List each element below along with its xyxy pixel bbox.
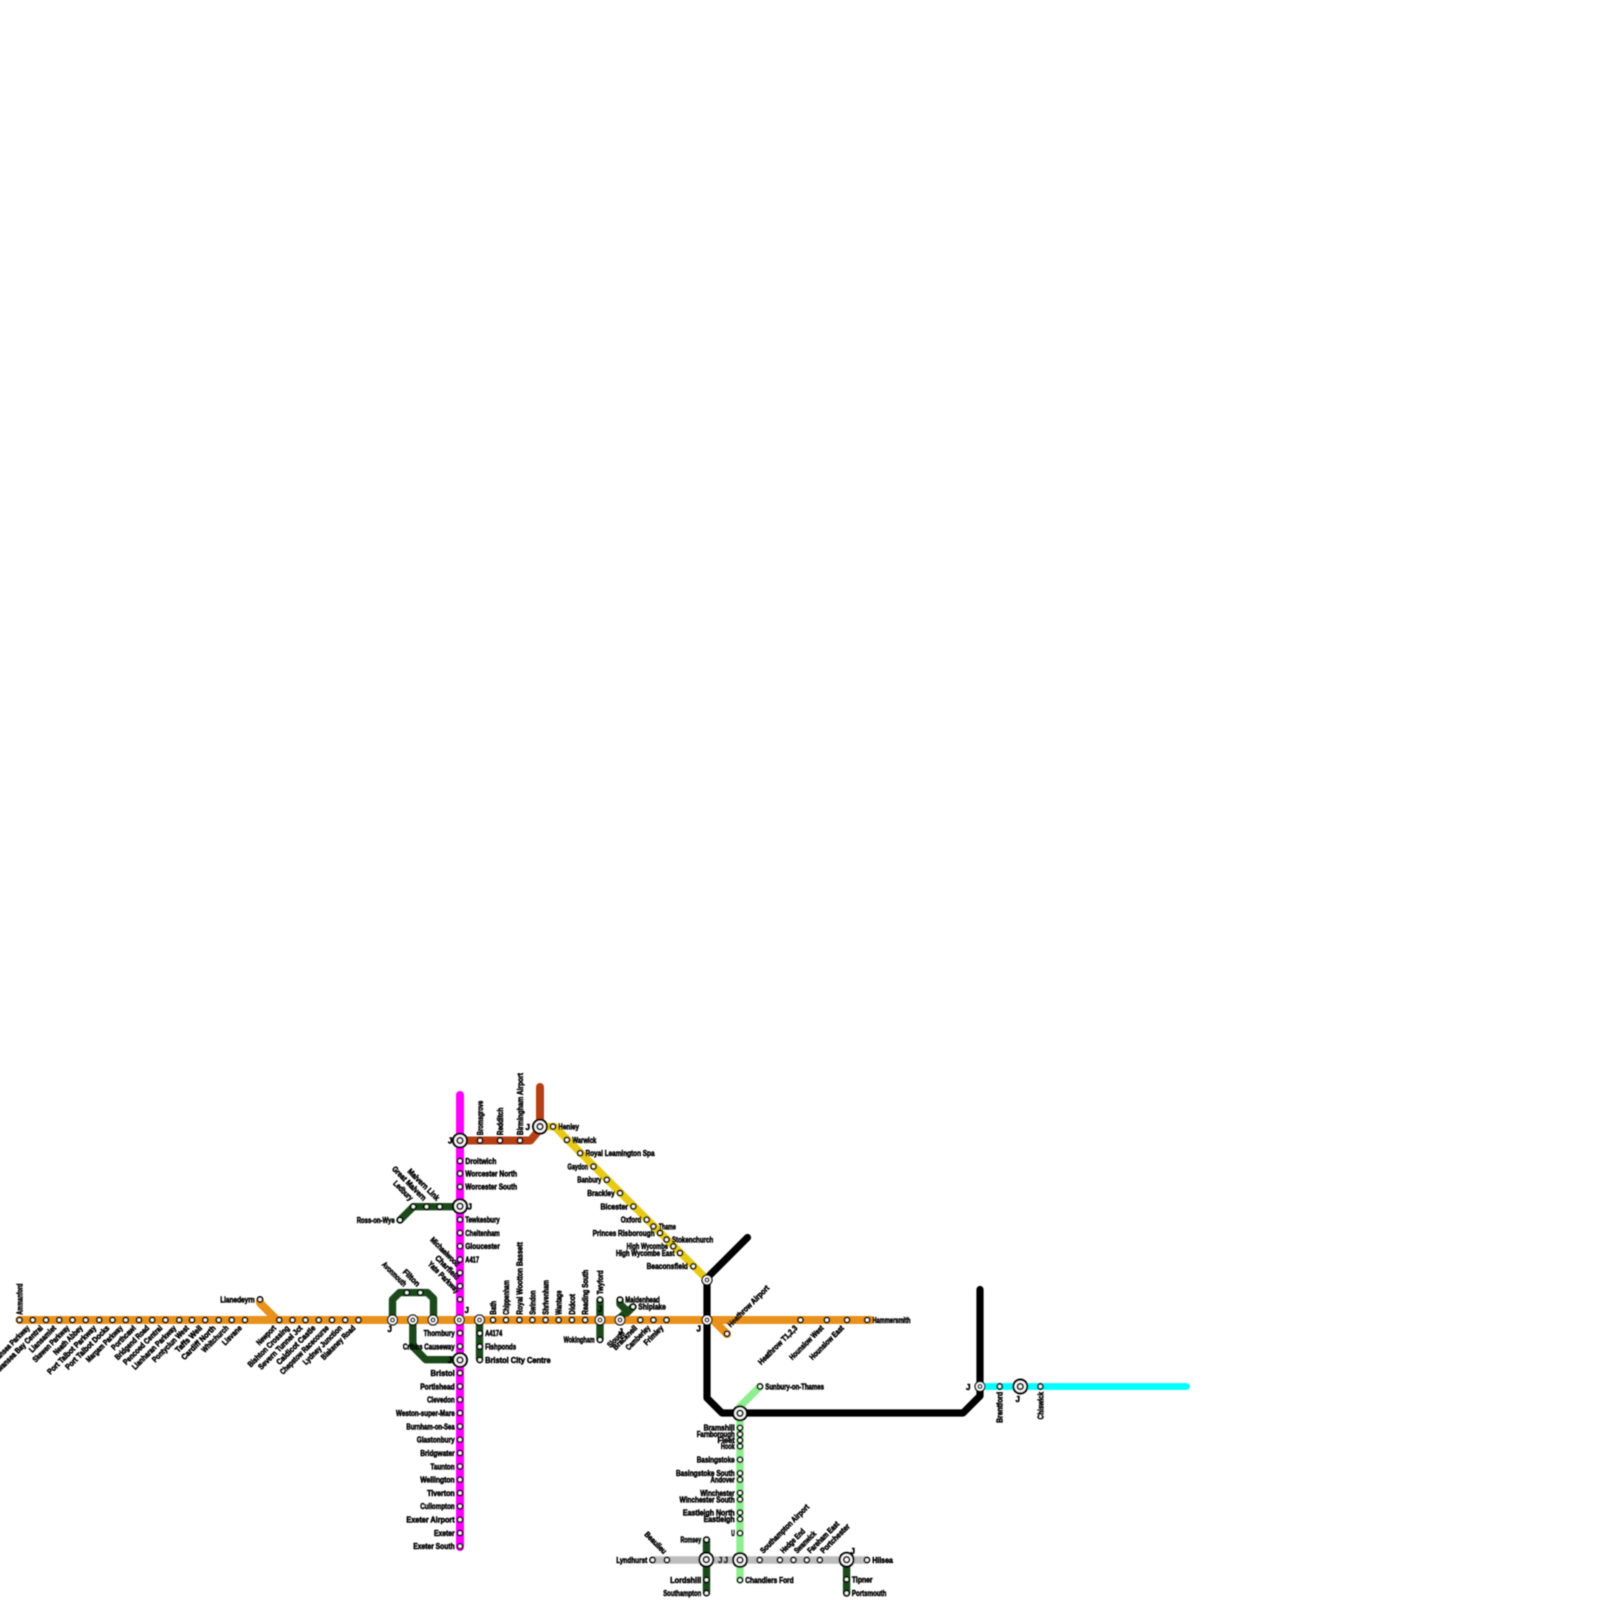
svg-text:Stokenchurch: Stokenchurch [672,1236,713,1245]
line orange main (Swansea-Hammersmith) [20,1316,872,1324]
svg-text:Henley: Henley [558,1123,579,1132]
interchange J yellow-black Beaconsfield [701,1274,712,1285]
svg-text:Ross-on-Wye: Ross-on-Wye [357,1216,395,1225]
svg-text:Brentford: Brentford [996,1392,1005,1423]
svg-text:Southampton: Southampton [663,1589,701,1598]
svg-text:Gaydon: Gaydon [568,1162,589,1171]
line orange Llanedeyrn branch [260,1301,277,1320]
svg-text:Bristol: Bristol [431,1369,455,1378]
line grey (Lyndhurst-Hilsea) [653,1556,867,1563]
svg-text:Oxford: Oxford [621,1216,642,1225]
big interchange circles [452,1119,1028,1568]
svg-text:Portsmouth: Portsmouth [852,1589,887,1598]
svg-text:Didcot: Didcot [568,1294,577,1315]
svg-text:Hook: Hook [721,1442,735,1451]
interchange Bristol junction [452,1352,468,1368]
svg-text:Ammanford: Ammanford [15,1284,24,1315]
line darkgreen Twyford-Wokingham [596,1300,603,1339]
svg-text:Hammersmith: Hammersmith [873,1316,911,1325]
interchange J magenta-green [452,1198,468,1214]
svg-text:Wokingham: Wokingham [564,1336,595,1345]
svg-text:Weston-super-Mare: Weston-super-Mare [396,1409,455,1418]
svg-text:J: J [711,1268,715,1277]
interchange J orange-greenBristolCity [474,1314,485,1325]
svg-text:J: J [448,1356,452,1365]
svg-text:J: J [465,1306,469,1315]
svg-text:Lordshill: Lordshill [670,1576,701,1585]
line brown (Birmingham) [460,1087,540,1141]
interchange J loop east [427,1314,438,1325]
svg-text:J: J [1016,1395,1020,1404]
line black (Beaconsfield loop) [707,1238,980,1414]
svg-text:Fishponds: Fishponds [485,1343,517,1352]
svg-text:Burnham-on-Sea: Burnham-on-Sea [406,1422,455,1431]
svg-text:Redditch: Redditch [496,1108,505,1136]
svg-text:Andover: Andover [711,1476,735,1485]
station name labels [0,1073,1045,1598]
interchange Portsmouth junction [839,1552,855,1568]
svg-text:Worcester South: Worcester South [465,1183,517,1192]
interchange J loop west [387,1314,398,1325]
svg-text:J: J [724,1556,728,1565]
svg-text:Cheltenham: Cheltenham [465,1229,500,1238]
line darkgreen Avonmouth loop [393,1293,434,1318]
interchange J orange-Wokingham [594,1314,605,1325]
svg-text:U: U [731,1529,735,1538]
line darkgreen Ross-on-Wye branch [400,1207,458,1220]
svg-text:Exeter: Exeter [434,1529,455,1538]
svg-text:Worcester North: Worcester North [465,1169,517,1178]
svg-text:Clevedon: Clevedon [427,1396,455,1405]
svg-text:Bath: Bath [489,1301,498,1315]
line yellow (Henley-Beaconsfield) [540,1127,707,1280]
line lightgreen Sunbury branch [740,1387,760,1409]
svg-text:Royal Wootton Bassett: Royal Wootton Bassett [515,1242,524,1315]
svg-text:Gloucester: Gloucester [465,1242,500,1251]
svg-text:Cribbs Causeway: Cribbs Causeway [403,1342,455,1351]
svg-text:J: J [468,1202,472,1211]
interchange J orange-black [701,1314,712,1325]
interchange Henley junction [532,1119,548,1135]
line darkgreen Bristol connector [413,1322,458,1360]
interchange J black-cyan [974,1381,985,1392]
svg-text:Bromsgrove: Bromsgrove [476,1100,485,1135]
svg-text:Eastleigh: Eastleigh [704,1515,735,1524]
svg-text:Swindon: Swindon [528,1290,537,1314]
svg-text:A417: A417 [465,1255,479,1264]
svg-text:Wellington: Wellington [420,1476,455,1485]
interchange cyan interchange [1012,1379,1028,1395]
svg-text:Twyford: Twyford [596,1270,605,1294]
svg-text:J: J [388,1325,392,1334]
line darkgreen Maidenhead branch [620,1300,627,1317]
svg-text:Taunton: Taunton [431,1462,455,1471]
svg-text:A4174: A4174 [485,1329,503,1338]
svg-text:Exeter Airport: Exeter Airport [406,1516,455,1525]
svg-text:Bicester: Bicester [601,1202,629,1211]
svg-text:Romsey: Romsey [681,1536,702,1545]
line darkgreen Bristol City branch [476,1322,483,1359]
svg-text:Cullompton: Cullompton [420,1502,455,1511]
svg-text:Thame: Thame [659,1222,677,1231]
svg-text:Beaconsfield: Beaconsfield [647,1262,688,1271]
line darkgreen Shiplake spur [627,1307,633,1313]
line darkgreen Romsey-Southampton [703,1540,710,1593]
svg-text:J: J [526,1123,530,1132]
svg-text:Princes Risborough: Princes Risborough [593,1229,655,1238]
interchange Slough interchange [614,1314,625,1325]
svg-text:Droitwich: Droitwich [465,1157,496,1166]
svg-text:Bridgwater: Bridgwater [420,1449,455,1458]
interchange J Bristol conn [407,1314,418,1325]
svg-text:Chippenham: Chippenham [502,1280,511,1315]
line magenta (Droitwich-Exeter South) [456,1095,464,1547]
svg-text:Tewkesbury: Tewkesbury [465,1216,500,1225]
svg-text:Reading South: Reading South [581,1270,590,1315]
svg-text:Brackley: Brackley [587,1189,615,1198]
svg-text:Portishead: Portishead [420,1382,455,1391]
interchange J orange-magenta [454,1314,465,1325]
svg-text:J: J [697,1325,701,1334]
interchange Romsey-grey junction [698,1552,714,1568]
svg-text:Royal Leamington Spa: Royal Leamington Spa [586,1149,655,1158]
svg-text:Banbury: Banbury [577,1176,602,1185]
svg-text:J: J [966,1383,970,1392]
svg-text:Birmingham Airport: Birmingham Airport [516,1073,525,1135]
svg-text:Shiplake: Shiplake [638,1303,666,1312]
line lightgreen (Basingstoke-Chandlers Ford) [736,1411,743,1580]
svg-text:Chiswick: Chiswick [1036,1391,1045,1419]
svg-text:Winchester South: Winchester South [680,1495,735,1504]
svg-text:Thornbury: Thornbury [424,1329,456,1338]
svg-text:Hilsea: Hilsea [872,1556,893,1565]
svg-text:Bristol City Centre: Bristol City Centre [485,1356,551,1365]
interchange J magenta-brown [452,1133,468,1149]
svg-text:Exeter South: Exeter South [413,1542,454,1551]
svg-text:Basingstoke: Basingstoke [697,1456,735,1465]
junction J labels [388,1123,1020,1565]
svg-text:Tiverton: Tiverton [427,1489,455,1498]
svg-text:J: J [851,1547,855,1556]
interchange Chandlers junction [732,1552,748,1568]
svg-text:Glastonbury: Glastonbury [417,1436,455,1445]
line darkgreen Tipner-Portsmouth [843,1562,850,1593]
line orange Heathrow branch [715,1322,727,1334]
svg-text:High Wycombe East: High Wycombe East [616,1249,675,1258]
svg-text:Lyndhurst: Lyndhurst [616,1556,647,1565]
medium interchange circles [387,1274,986,1392]
svg-text:J: J [718,1556,722,1565]
line cyan (east) [981,1383,1187,1390]
svg-text:Llanedeyrn: Llanedeyrn [220,1295,255,1304]
svg-text:Shrivenham: Shrivenham [542,1280,551,1315]
svg-text:J: J [598,1305,602,1314]
svg-text:J: J [619,1328,623,1337]
interchange Sunbury junction [732,1405,748,1421]
svg-text:Warwick: Warwick [572,1136,597,1145]
small station circles [16,1123,1044,1597]
svg-text:Sunbury-on-Thames: Sunbury-on-Thames [765,1382,824,1391]
svg-text:J: J [448,1137,452,1146]
svg-text:Tipner: Tipner [852,1575,873,1584]
svg-text:Wantage: Wantage [555,1290,564,1315]
svg-text:Chandlers Ford: Chandlers Ford [745,1576,793,1585]
